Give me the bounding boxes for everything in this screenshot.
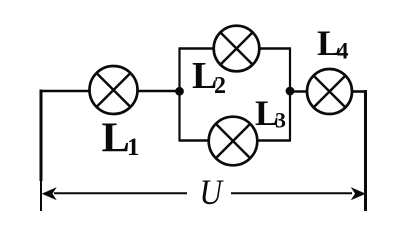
svg-text:2: 2 [214, 73, 226, 99]
svg-text:U: U [200, 173, 225, 212]
svg-text:4: 4 [337, 39, 349, 64]
svg-text:1: 1 [127, 134, 140, 161]
svg-text:3: 3 [275, 108, 286, 133]
svg-text:L: L [102, 115, 130, 162]
